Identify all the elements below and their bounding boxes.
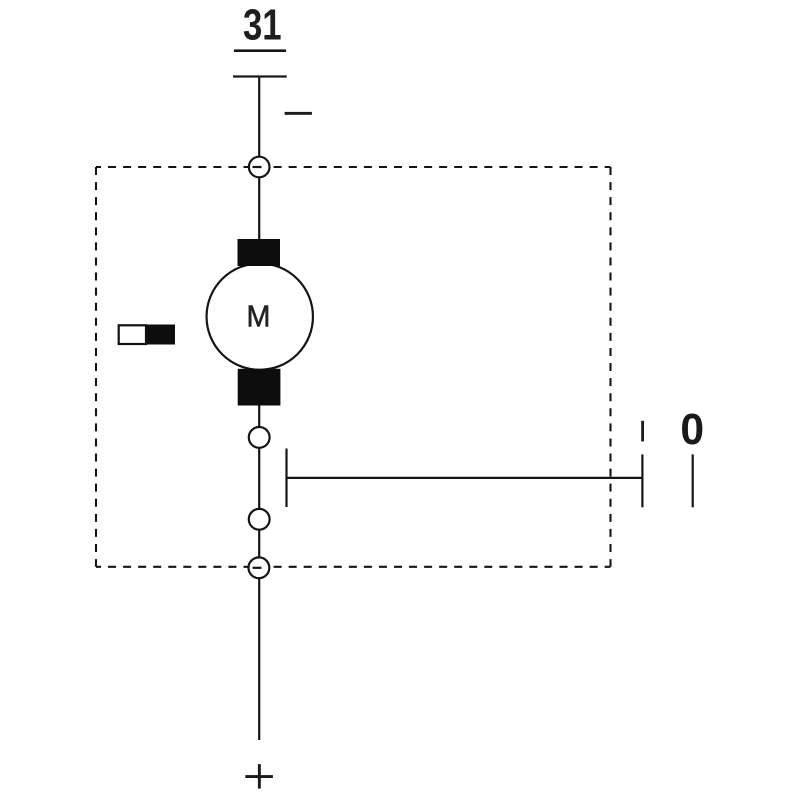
terminal 31 connection bar bbox=[233, 75, 287, 77]
motor bottom brush bbox=[238, 369, 281, 406]
switch S1 actuator bar bbox=[285, 449, 287, 508]
svg-text:31: 31 bbox=[243, 1, 282, 50]
motor M1 body bbox=[207, 263, 313, 369]
plus polarity label bbox=[245, 764, 273, 789]
wire: terminal circle 2 to boundary terminal bottom bbox=[258, 530, 260, 558]
boundary terminal top bbox=[249, 157, 270, 178]
switch S1 contact bar I bbox=[641, 454, 643, 507]
boundary terminal bottom bbox=[249, 557, 270, 578]
switch S1 contact bar 0 bbox=[692, 454, 694, 507]
wire: terminal circle 1 to terminal circle 2 bbox=[258, 448, 260, 509]
switch S1 link line bbox=[287, 477, 644, 479]
wire: terminal 31 bar to boundary terminal bbox=[258, 78, 260, 157]
terminal circle 1 bbox=[249, 427, 270, 448]
switch position label I bbox=[641, 421, 644, 442]
minus polarity label bbox=[285, 112, 312, 115]
terminal 31 underline bbox=[234, 49, 286, 52]
device boundary dashed box bbox=[96, 167, 611, 567]
svg-text:0: 0 bbox=[680, 406, 704, 455]
wire: boundary terminal to motor top brush bbox=[258, 177, 260, 240]
wire: bottom brush to terminal circle 1 bbox=[258, 406, 260, 428]
wire: boundary terminal bottom to plus bbox=[258, 578, 260, 740]
motor top brush bbox=[238, 239, 281, 266]
connector polarity key symbol bbox=[119, 325, 175, 345]
svg-text:M: M bbox=[246, 300, 270, 334]
terminal circle 2 bbox=[249, 509, 270, 530]
